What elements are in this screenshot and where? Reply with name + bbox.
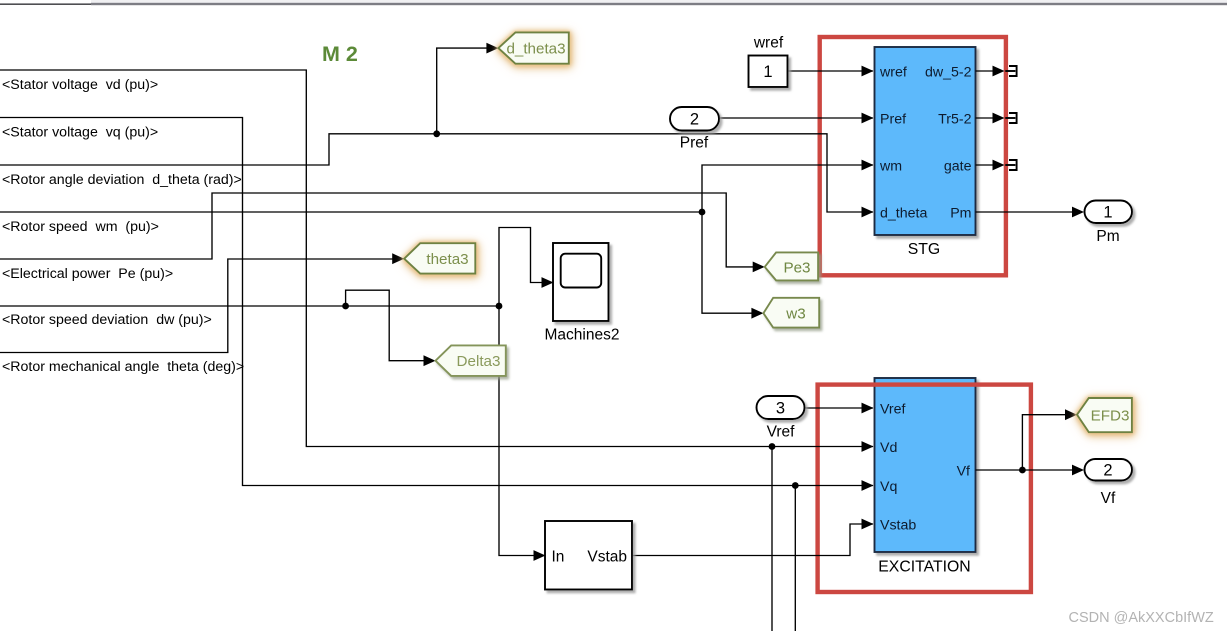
terminator 1 bracket (1005, 66, 1016, 76)
STG port labels (879, 65, 972, 222)
svg-text:<Rotor mechanical angle theta: <Rotor mechanical angle theta (deg)> (2, 359, 244, 375)
wire STG dw_5-2 out (976, 70, 994, 72)
svg-text:Vf: Vf (957, 464, 970, 480)
arrow into theta3 tag (392, 253, 404, 264)
arrow into Pe3 tag (753, 262, 765, 273)
arrow into port Pm (1072, 207, 1084, 218)
outport 1 Pm (oval) (1085, 201, 1133, 224)
arrow into terminator 3 (993, 160, 1005, 171)
wire port1 to STG wref (788, 70, 874, 72)
svg-text:w3: w3 (785, 306, 805, 323)
svg-text:Delta3: Delta3 (457, 353, 501, 370)
arrow into terminator 2 (993, 113, 1005, 124)
wire dw branch up to scope (499, 228, 543, 307)
wire port3 to EXCITATION Vref (805, 407, 874, 409)
wire wm row (0, 211, 702, 213)
node wm branch (699, 209, 706, 216)
svg-text:Vd: Vd (880, 440, 897, 456)
wire dw row (0, 305, 499, 307)
svg-text:Pm: Pm (950, 206, 971, 222)
svg-text:2: 2 (1103, 462, 1112, 480)
wire theta row to theta3 tag (0, 259, 394, 353)
node d_theta/d_theta3 (433, 130, 440, 137)
subsystem EXCITATION (blue body, drawn before red box2) (875, 378, 976, 552)
wire vd row (0, 70, 873, 447)
svg-text:In: In (552, 549, 565, 566)
arrow into EXCITATION Vd (862, 441, 874, 452)
wire wm branch down to w3 tag (702, 212, 752, 313)
wire dw branch down to In block (499, 306, 535, 556)
svg-text:Vref: Vref (880, 402, 906, 418)
goto tag Delta3 (436, 345, 506, 376)
wire vq row (0, 118, 873, 486)
arrow into w3 tag (751, 308, 763, 319)
arrow into In block (534, 550, 546, 561)
arrow into terminator 1 (993, 66, 1005, 77)
svg-text:1: 1 (763, 63, 772, 81)
red highlight box STG (820, 37, 1006, 275)
svg-text:Vref: Vref (767, 424, 796, 441)
inport 3 Vref (oval) (757, 396, 805, 419)
terminator 3 bracket (1005, 160, 1016, 170)
wire vd branch down offscreen (771, 447, 773, 632)
top bar left dark line (0, 3, 91, 5)
scope Machines2 (553, 243, 609, 321)
outport 2 Vf (oval) (1085, 459, 1133, 481)
node dw branch (496, 303, 503, 310)
top scrollbar grey track (91, 0, 1227, 3)
arrow into scope Machines2 (542, 277, 554, 288)
wire d_theta row (0, 134, 873, 212)
goto tag w3 (763, 298, 819, 328)
svg-text:<Rotor angle deviation d_thet: <Rotor angle deviation d_theta (rad)> (2, 172, 242, 188)
arrow into STG wm (862, 160, 874, 171)
wire EXCITATION Vf out to port Vf (976, 469, 1074, 471)
EXCITATION port labels (880, 402, 970, 534)
svg-text:EXCITATION: EXCITATION (878, 559, 970, 576)
red highlight box EXCITATION (818, 385, 1031, 592)
wire wm branch up to STG wm input (702, 165, 873, 212)
svg-text:3: 3 (776, 400, 785, 418)
arrow into EXCITATION Vref (862, 403, 874, 414)
svg-text:Machines2: Machines2 (545, 327, 620, 344)
svg-text:1: 1 (1103, 204, 1112, 222)
svg-text:<Stator voltage vd (pu)>: <Stator voltage vd (pu)> (2, 77, 158, 93)
wire STG Pm out to port Pm (976, 211, 1074, 213)
wire d_theta branch to d_theta3 tag (437, 48, 488, 134)
svg-text:d_theta: d_theta (880, 206, 927, 222)
svg-text:STG: STG (908, 241, 940, 258)
svg-text:<Stator voltage vq (pu)>: <Stator voltage vq (pu)> (2, 125, 158, 141)
svg-text:wm: wm (879, 159, 902, 175)
svg-text:<Rotor speed deviation dw (pu: <Rotor speed deviation dw (pu)> (2, 312, 212, 328)
In Vstab block (545, 521, 632, 590)
arrow into port Vf (1072, 465, 1084, 476)
top scrollbar track left white segment (0, 0, 90, 3)
svg-text:Vq: Vq (880, 479, 897, 495)
svg-text:theta3: theta3 (426, 251, 468, 268)
wire vq branch down offscreen (794, 486, 796, 632)
node Vq branch (792, 482, 799, 489)
goto tag Pe3 (765, 252, 818, 280)
svg-text:wref: wref (753, 35, 784, 52)
svg-text:EFD3: EFD3 (1091, 408, 1130, 425)
svg-text:Pe3: Pe3 (783, 260, 810, 277)
goto tag theta3 (404, 243, 475, 273)
svg-text:<Electrical power Pe (pu)>: <Electrical power Pe (pu)> (2, 266, 173, 282)
svg-text:Tr5-2: Tr5-2 (938, 112, 971, 128)
svg-text:2: 2 (690, 111, 699, 129)
wire port2 to STG Pref (719, 117, 873, 119)
wire Pe row (0, 193, 754, 267)
node Vd branch (769, 443, 776, 450)
svg-text:dw_5-2: dw_5-2 (925, 65, 972, 81)
wire Vf branch to EFD3 tag (1022, 415, 1066, 470)
wire dw branch to Delta3 tag (346, 290, 425, 361)
goto tag EFD3 (1077, 398, 1132, 432)
arrow into STG Pref (862, 113, 874, 124)
svg-text:Pref: Pref (680, 135, 709, 152)
inport 1 wref (square) (749, 56, 788, 88)
svg-text:<Rotor speed wm (pu)>: <Rotor speed wm (pu)> (2, 219, 159, 235)
svg-text:Pm: Pm (1096, 228, 1119, 245)
arrow into EXCITATION Vq (862, 480, 874, 491)
svg-text:d_theta3: d_theta3 (506, 41, 565, 58)
arrow into STG d_theta (862, 207, 874, 218)
svg-text:CSDN @AkXXCbIfWZ: CSDN @AkXXCbIfWZ (1069, 610, 1214, 626)
arrowheads (392, 43, 1084, 561)
svg-text:M 2: M 2 (322, 42, 358, 66)
svg-text:Vstab: Vstab (880, 518, 916, 534)
svg-text:gate: gate (944, 159, 972, 175)
goto tag d_theta3 (498, 32, 568, 63)
terminator 2 bracket (1005, 113, 1016, 123)
node Vf/EFD3 (1019, 467, 1026, 474)
node dw/Delta3 (342, 303, 349, 310)
svg-text:Pref: Pref (880, 112, 906, 128)
wire In block to EXCITATION Vstab (632, 524, 873, 556)
wire STG Tr5-2 out (976, 117, 994, 119)
arrow into d_theta3 tag (486, 43, 498, 54)
arrow into EFD3 tag (1065, 409, 1077, 420)
svg-text:wref: wref (879, 65, 907, 81)
top scrollbar dark band (91, 3, 1227, 5)
wire STG gate out (976, 164, 994, 166)
arrow into STG wref (862, 66, 874, 77)
inport 2 Pref (oval) (670, 107, 719, 131)
arrow into EXCITATION Vstab (862, 519, 874, 530)
svg-text:Vstab: Vstab (587, 549, 627, 566)
svg-text:Vf: Vf (1101, 490, 1116, 507)
subsystem STG (blue body) (875, 47, 976, 235)
arrow into Delta3 tag (424, 355, 436, 366)
